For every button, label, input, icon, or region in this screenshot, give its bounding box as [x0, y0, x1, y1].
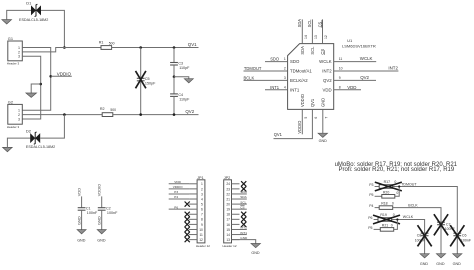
pin 13 SCL wire: [311, 19, 313, 43]
svg-text:SDO: SDO: [270, 57, 279, 62]
svg-text:INT2: INT2: [322, 69, 332, 74]
JP1 pin 1 stub: [189, 183, 197, 185]
svg-text:GND: GND: [251, 251, 260, 255]
no-connect X JP2 pin 17: [241, 217, 246, 222]
wire TDMOUT net: [393, 187, 458, 232]
svg-text:GND: GND: [240, 236, 248, 240]
IC U1 body: [288, 44, 334, 110]
svg-text:Header 12: Header 12: [196, 244, 210, 248]
resistor R18: [379, 206, 393, 210]
capacitor C4 wire bottom: [173, 96, 175, 114]
svg-text:9: 9: [201, 223, 203, 227]
JP1 pin 4 stub: [189, 198, 197, 200]
svg-text:500: 500: [110, 108, 116, 112]
diode D1 (TVS): [31, 5, 36, 15]
wire ground to D2: [7, 138, 30, 147]
svg-text:INT2: INT2: [388, 65, 398, 70]
JP2 pin 13 stub: [232, 239, 240, 241]
junction C5 top: [139, 46, 142, 49]
svg-text:QV1: QV1: [310, 98, 315, 107]
wire JP2 pin 14 (INT1): [240, 234, 247, 236]
wire QV1 net: [112, 47, 199, 49]
svg-text:C1: C1: [86, 206, 91, 210]
svg-text:6: 6: [201, 208, 203, 212]
svg-text:WCLK: WCLK: [360, 56, 373, 61]
capacitor C1 wire top: [81, 196, 83, 207]
wire JP2 pin 13 (GND): [232, 240, 256, 244]
svg-text:GND: GND: [77, 238, 86, 242]
svg-text:100nF: 100nF: [107, 211, 118, 215]
svg-text:TDMout/A1: TDMout/A1: [290, 69, 312, 74]
capacitor C7: [437, 221, 445, 223]
svg-text:SCL: SCL: [240, 200, 246, 204]
pin 10 INT2 wire: [334, 70, 399, 72]
svg-text:ESDALCL5-18M2: ESDALCL5-18M2: [26, 145, 55, 149]
pin 12 CS wire: [322, 19, 324, 43]
no-connect X JP2 pin 16: [241, 222, 246, 227]
overline CS (JP2): [240, 205, 244, 207]
svg-text:6: 6: [314, 117, 318, 119]
svg-text:2: 2: [284, 67, 286, 71]
capacitor C6 wire bottom: [456, 236, 458, 254]
pin 7 GND wire: [322, 109, 324, 133]
svg-text:C3: C3: [178, 61, 183, 65]
svg-text:11: 11: [339, 57, 343, 61]
pin 8 VDD wire: [334, 89, 361, 91]
pin 14 SDA wire: [301, 19, 303, 43]
no-connect X JP1 pin 7: [185, 212, 190, 217]
svg-text:D2: D2: [26, 129, 32, 134]
svg-text:QV1: QV1: [188, 42, 197, 47]
svg-text:16: 16: [226, 223, 230, 227]
svg-text:2: 2: [18, 50, 20, 54]
resistor R19: [378, 218, 392, 222]
svg-text:12: 12: [199, 238, 203, 242]
ground (C1): [77, 230, 86, 234]
connector G1 box: [8, 41, 22, 61]
wire WCLK net: [392, 220, 425, 234]
JP1 pin 8 stub: [189, 218, 197, 220]
svg-text:150pF: 150pF: [145, 82, 156, 86]
wire P6 to R19: [374, 219, 378, 221]
JP1 pin 10 stub: [189, 228, 197, 230]
ground (C3/C4): [184, 79, 193, 83]
svg-text:4: 4: [284, 85, 286, 89]
wire JP2 pin 15 (INT2): [240, 228, 247, 230]
svg-text:R19: R19: [380, 213, 386, 217]
capacitor C5 wire bottom: [140, 81, 142, 115]
svg-text:9: 9: [339, 76, 341, 80]
junction C5 bottom: [139, 113, 142, 116]
JP2 pin 20 stub: [232, 203, 240, 205]
svg-text:20: 20: [226, 203, 230, 207]
capacitor C3 wire top: [173, 48, 175, 63]
JP2 pin 14 stub: [232, 234, 240, 236]
svg-text:13: 13: [226, 238, 230, 242]
svg-text:VDD: VDD: [323, 87, 332, 92]
capacitor C5: [137, 77, 145, 79]
capacitor C3: [170, 62, 178, 64]
svg-text:10: 10: [199, 228, 203, 232]
connector JP2 box: [224, 180, 232, 243]
svg-text:P6: P6: [174, 205, 178, 209]
svg-text:C8: C8: [417, 233, 422, 237]
svg-text:500: 500: [109, 42, 115, 46]
svg-text:C5: C5: [145, 77, 150, 81]
svg-text:CS: CS: [240, 205, 244, 209]
svg-text:0: 0: [396, 191, 398, 195]
junction C4 bottom: [173, 113, 176, 116]
wire R21 to WCLK: [394, 220, 398, 230]
svg-text:C2: C2: [106, 206, 111, 210]
svg-text:3: 3: [284, 76, 286, 80]
svg-text:110pF: 110pF: [179, 66, 190, 70]
svg-text:GND: GND: [76, 216, 81, 225]
svg-text:1: 1: [201, 182, 203, 186]
svg-text:10: 10: [339, 67, 343, 71]
svg-text:24: 24: [226, 182, 230, 186]
svg-text:P3: P3: [369, 183, 373, 187]
svg-text:P4: P4: [369, 204, 373, 208]
svg-text:8: 8: [339, 85, 341, 89]
pin 2 TDMOUT wire: [244, 70, 288, 72]
svg-text:5: 5: [201, 203, 203, 207]
capacitor C8 wire bottom: [424, 236, 426, 254]
JP1 pin 11 stub: [189, 234, 197, 236]
svg-text:JP2: JP2: [224, 176, 231, 180]
svg-text:QV2: QV2: [323, 78, 332, 83]
svg-text:R2: R2: [100, 107, 105, 111]
no-connect X JP1 pin 10: [185, 227, 190, 232]
svg-text:VDDIO: VDDIO: [57, 71, 72, 76]
ground (D2): [3, 147, 13, 151]
svg-text:VDDIO: VDDIO: [173, 185, 183, 189]
svg-text:P3: P3: [174, 190, 178, 194]
capacitor C7 wire bottom: [440, 225, 442, 254]
JP2 pin 18 stub: [232, 213, 240, 215]
no-connect X JP1 pin 9: [185, 222, 190, 227]
svg-text:21: 21: [226, 197, 230, 201]
JP2 pin 16 stub: [232, 223, 240, 225]
ground (JP2 pin13): [251, 244, 260, 248]
JP1 pin 2 stub: [189, 188, 197, 190]
svg-text:C6: C6: [462, 233, 467, 237]
wire G1 pin2 signal to R1: [22, 48, 101, 52]
JP1 pin 7 stub: [189, 213, 197, 215]
svg-text:SDO: SDO: [290, 59, 300, 64]
JP2 pin 22 stub: [232, 193, 240, 195]
DNP cross over C6: [450, 225, 464, 246]
svg-text:CS: CS: [320, 49, 325, 55]
svg-text:VDDIO: VDDIO: [96, 184, 101, 196]
DNP cross over R17: [375, 182, 402, 191]
junction GND rail tap: [39, 83, 42, 86]
JP2 pin 23 stub: [232, 188, 240, 190]
no-connect X JP1 pin 12: [185, 237, 190, 242]
ground (C2): [97, 230, 106, 234]
resistor R17: [379, 185, 392, 189]
wire D2 to node QV2-in: [40, 115, 64, 139]
svg-text:TDMOUT: TDMOUT: [401, 182, 417, 186]
svg-text:18: 18: [226, 213, 230, 217]
svg-text:G2: G2: [8, 99, 13, 104]
svg-text:GND: GND: [319, 139, 328, 143]
wire G1 pin3 to GND rail: [22, 56, 40, 119]
svg-text:INT1: INT1: [290, 87, 300, 92]
svg-text:CS: CS: [317, 21, 322, 27]
svg-text:1: 1: [284, 57, 286, 61]
svg-text:VDD: VDD: [174, 180, 181, 184]
wire G2 pin2 signal to R2: [22, 114, 102, 116]
capacitor C2 wire top: [101, 196, 103, 207]
DNP cross over C5: [136, 71, 146, 88]
svg-text:SDA: SDA: [300, 46, 305, 55]
svg-text:23: 23: [226, 187, 230, 191]
svg-text:0: 0: [392, 201, 394, 205]
svg-text:100nF: 100nF: [87, 211, 98, 215]
svg-text:P6: P6: [368, 216, 372, 220]
svg-text:QV1: QV1: [274, 132, 283, 137]
no-connect X JP2 pin 18: [241, 212, 246, 217]
svg-text:VDD: VDD: [347, 85, 356, 90]
ground (IC pin7): [318, 133, 327, 137]
svg-text:110pF: 110pF: [179, 97, 190, 101]
capacitor C3 wire bottom: [173, 65, 175, 77]
svg-text:U1: U1: [347, 38, 353, 43]
overline CS net: [321, 20, 323, 28]
JP1 pin 12 stub: [189, 239, 197, 241]
wire D1 to node QV1-in: [41, 10, 64, 47]
wire P5 to R20: [375, 195, 382, 197]
connector JP1 box: [197, 180, 205, 243]
wire ground to D1: [7, 10, 31, 19]
wire BCLK net: [393, 208, 441, 223]
junction D1/R1: [63, 46, 66, 49]
no-connect X JP1 pin 11: [185, 232, 190, 237]
capacitor C6: [453, 232, 461, 234]
svg-text:JP1: JP1: [197, 176, 204, 180]
svg-text:Header 12: Header 12: [223, 244, 237, 248]
svg-text:R17: R17: [384, 180, 390, 184]
pin 3 BCLK wire: [244, 79, 288, 81]
svg-text:2: 2: [201, 187, 203, 191]
JP2 pin 17 stub: [232, 218, 240, 220]
svg-text:TDMOUT: TDMOUT: [244, 66, 262, 71]
svg-text:13: 13: [314, 35, 318, 39]
svg-text:C4: C4: [178, 93, 183, 97]
junction VDDIO tap: [49, 75, 52, 78]
ground (G1/G2 rail): [26, 93, 37, 97]
svg-text:3: 3: [18, 117, 20, 121]
wire JP2 pin 22 (SDO): [240, 193, 247, 195]
svg-text:GND: GND: [420, 262, 429, 266]
ground (top-left, D1): [2, 20, 12, 24]
resistor R2: [102, 113, 113, 117]
wire P4 to R18: [375, 207, 380, 209]
wire P7 to R21: [374, 228, 381, 230]
pin 11 WCLK wire: [334, 61, 377, 63]
wire GND tap: [31, 84, 41, 93]
wire QV2 net: [113, 114, 199, 116]
svg-text:8: 8: [201, 218, 203, 222]
resistor R21: [380, 228, 393, 232]
svg-text:GND: GND: [320, 98, 325, 107]
overline CS pin: [324, 50, 326, 55]
svg-text:SCL: SCL: [307, 19, 312, 28]
JP2 pin 24 stub: [232, 183, 240, 185]
svg-text:P4: P4: [174, 195, 178, 199]
wire VDDIO label stub: [51, 75, 72, 77]
svg-text:19: 19: [226, 208, 230, 212]
svg-text:4: 4: [201, 197, 203, 201]
JP2 pin 21 stub: [232, 198, 240, 200]
wire G1 pin1 to VDDIO rail: [22, 48, 50, 111]
ground (C8): [420, 254, 429, 258]
svg-text:BCLK/A2: BCLK/A2: [290, 78, 308, 83]
svg-text:3: 3: [18, 55, 20, 59]
ground (C6): [453, 254, 462, 258]
svg-text:5: 5: [304, 117, 308, 119]
svg-text:VDDIO: VDDIO: [300, 94, 305, 107]
no-connect X JP2 pin 23: [241, 186, 246, 191]
svg-text:12: 12: [324, 35, 328, 39]
connector G2 box: [8, 104, 22, 124]
pin 9 QV2 wire: [334, 79, 376, 81]
capacitor C8: [421, 232, 429, 234]
svg-text:1: 1: [18, 109, 20, 113]
svg-text:Header 3: Header 3: [7, 125, 20, 129]
no-connect X JP1 pin 8: [185, 217, 190, 222]
svg-text:INT1: INT1: [270, 85, 280, 90]
svg-text:INT1: INT1: [240, 231, 247, 235]
wire mid node to ground: [174, 77, 189, 79]
junction R21/WCLK: [396, 218, 398, 220]
wire JP1 pin 1 (VDD): [169, 183, 189, 185]
svg-text:GND: GND: [436, 262, 445, 266]
svg-text:22: 22: [226, 192, 230, 196]
svg-text:R18: R18: [381, 201, 387, 205]
svg-text:WCLK: WCLK: [403, 215, 414, 219]
svg-text:BCLK: BCLK: [244, 75, 255, 80]
svg-text:Profi: solder R20, R21; not so: Profi: solder R20, R21; not solder R17, …: [339, 167, 455, 173]
svg-text:GND: GND: [97, 238, 106, 242]
ground (C7): [436, 254, 445, 258]
wire R20 to TDMOUT: [395, 187, 399, 197]
no-connect X JP2 pin 24: [241, 181, 246, 186]
capacitor C1 wire bottom: [81, 210, 83, 229]
diode D2 (TVS): [30, 133, 35, 143]
resistor R20: [382, 195, 395, 199]
svg-text:0: 0: [391, 223, 393, 227]
wire JP2 pin 21 (SDA): [240, 198, 247, 200]
svg-text:P5: P5: [369, 193, 373, 197]
svg-text:P5: P5: [368, 226, 372, 230]
no-connect X JP1 pin 5: [185, 202, 190, 207]
resistor R1: [101, 46, 112, 50]
svg-text:SDA: SDA: [297, 19, 302, 28]
wire JP1 pin 3 (P3): [169, 193, 189, 195]
capacitor C4: [170, 93, 178, 95]
JP2 pin 19 stub: [232, 208, 240, 210]
wire JP1 pin 4 (P4): [169, 198, 189, 200]
svg-text:7: 7: [201, 213, 203, 217]
svg-text:QV2: QV2: [360, 75, 369, 80]
svg-text:2: 2: [18, 113, 20, 117]
capacitor C2: [98, 207, 106, 209]
svg-text:Header 3: Header 3: [7, 62, 20, 66]
svg-text:7: 7: [324, 117, 328, 119]
capacitor C1: [78, 207, 86, 209]
svg-text:1: 1: [18, 46, 20, 50]
wire JP1 pin 2 (VDDIO): [169, 188, 189, 190]
DNP cross over R19: [373, 215, 400, 224]
svg-text:VDD: VDD: [76, 188, 81, 196]
svg-text:VDDIO: VDDIO: [297, 121, 302, 134]
pin 1 SDO wire: [265, 61, 288, 63]
svg-text:D1: D1: [26, 0, 32, 5]
wire JP2 pin 20 (SCL): [240, 203, 247, 205]
svg-text:GND: GND: [96, 216, 101, 225]
capacitor C4 wire top: [173, 77, 175, 94]
svg-text:WCLK: WCLK: [319, 59, 332, 64]
JP1 pin 3 stub: [189, 193, 197, 195]
capacitor C2 wire bottom: [101, 210, 103, 229]
svg-text:14: 14: [304, 35, 308, 39]
wire P3 to R17: [375, 186, 380, 188]
svg-text:R1: R1: [99, 40, 104, 44]
svg-text:ESDALCL5-18M2: ESDALCL5-18M2: [19, 18, 48, 22]
junction C3/C4 mid: [173, 75, 176, 78]
svg-text:SDA: SDA: [240, 195, 247, 199]
svg-text:100nF: 100nF: [461, 238, 472, 242]
junction C3 top: [173, 46, 176, 49]
svg-text:15: 15: [226, 228, 230, 232]
junction R20/TDMOUT: [398, 185, 400, 187]
svg-text:SCL: SCL: [310, 46, 315, 55]
DNP cross over C7: [434, 214, 448, 235]
svg-text:R20: R20: [383, 190, 389, 194]
svg-text:3: 3: [201, 192, 203, 196]
wire JP2 pin 19 (CS): [240, 208, 247, 210]
junction D2/R2: [63, 113, 66, 116]
svg-text:14: 14: [226, 233, 230, 237]
svg-text:G1: G1: [8, 36, 13, 41]
pin 5 VDDIO wire: [301, 109, 303, 134]
svg-text:LSM6DSV16BXTR: LSM6DSV16BXTR: [342, 44, 376, 49]
DNP cross over C8: [418, 225, 432, 246]
svg-text:QV2: QV2: [185, 109, 194, 114]
pin 6 QV1 wire: [274, 109, 313, 138]
svg-text:GND: GND: [453, 262, 462, 266]
JP1 pin 5 stub: [189, 203, 197, 205]
JP1 pin 9 stub: [189, 223, 197, 225]
wire JP1 pin 6 (P6): [169, 208, 189, 210]
svg-text:R21: R21: [382, 223, 388, 227]
JP2 pin 15 stub: [232, 228, 240, 230]
JP1 pin 6 stub: [189, 208, 197, 210]
pin 4 INT1 wire: [265, 89, 288, 91]
svg-text:11: 11: [199, 233, 203, 237]
svg-text:BCLK: BCLK: [408, 203, 418, 207]
capacitor C5 wire top: [140, 48, 142, 79]
svg-text:17: 17: [226, 218, 230, 222]
